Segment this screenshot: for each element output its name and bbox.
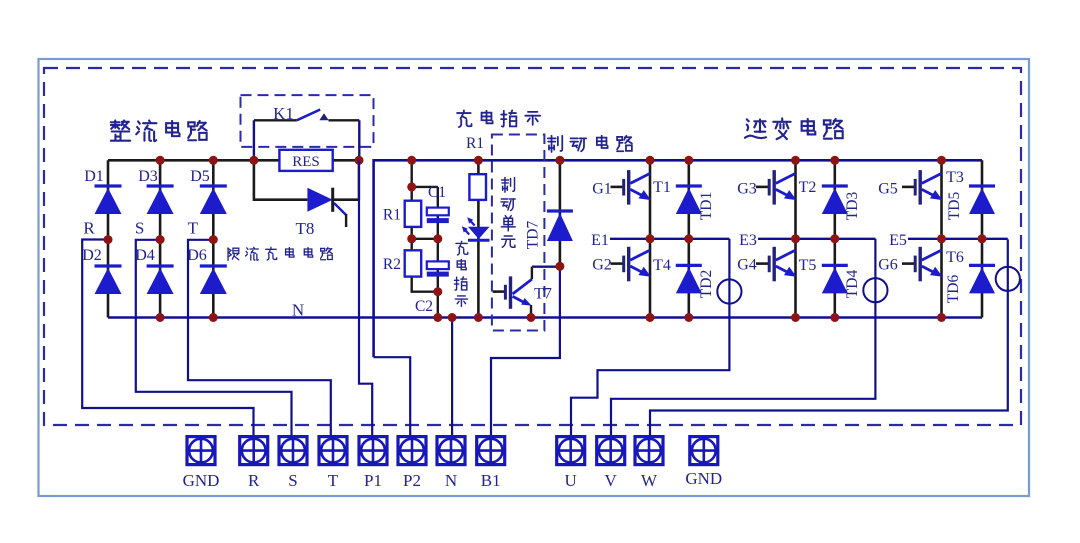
- terminal P1: [359, 437, 387, 465]
- diode D2: [95, 266, 122, 294]
- braking unit dashed box: [492, 135, 545, 331]
- junction dots snubber: [407, 156, 416, 165]
- svg-text:C2: C2: [415, 298, 433, 315]
- wire: output E5 to terminal: [650, 239, 1008, 437]
- svg-text:G4: G4: [737, 257, 757, 274]
- svg-text:TD3: TD3: [844, 192, 861, 221]
- capacitor C2: [427, 261, 449, 276]
- svg-text:G5: G5: [878, 181, 898, 198]
- svg-text:GND: GND: [685, 469, 722, 488]
- terminal GND: [187, 437, 215, 465]
- svg-text:R2: R2: [383, 256, 401, 273]
- terminal W: [635, 437, 663, 465]
- current sensor leg 3: [996, 267, 1020, 291]
- svg-text:P2: P2: [403, 471, 421, 490]
- wire: E3 row: [758, 238, 875, 240]
- transistor T1: [611, 170, 652, 205]
- wire: B1 routing: [491, 266, 560, 437]
- terminal S: [279, 437, 307, 465]
- current sensor leg 1: [717, 279, 741, 303]
- svg-text:D1: D1: [84, 168, 104, 185]
- svg-text:B1: B1: [481, 471, 501, 490]
- wire: to P1 terminal: [359, 160, 372, 437]
- svg-text:TD2: TD2: [698, 270, 715, 298]
- wire: inverter leg 2 diode vertical: [833, 160, 836, 317]
- svg-text:D6: D6: [187, 247, 207, 264]
- terminal P2: [398, 437, 426, 465]
- wire: inverter leg 3 IGBT vertical: [940, 160, 943, 317]
- transistor T6: [902, 247, 943, 281]
- wire: E1 row: [610, 238, 729, 240]
- wire: to P2 terminal: [374, 357, 411, 437]
- diode D4: [147, 266, 174, 294]
- wire: inverter leg 1 IGBT vertical: [649, 160, 652, 317]
- title: zhengliu dianlu: [111, 120, 130, 140]
- svg-text:T8: T8: [296, 219, 315, 238]
- svg-text:T1: T1: [653, 179, 671, 196]
- svg-text:P1: P1: [364, 471, 382, 490]
- terminal U: [557, 437, 585, 465]
- diode D1: [95, 186, 122, 214]
- diode TD4: [822, 265, 848, 293]
- svg-text:D5: D5: [190, 168, 210, 185]
- svg-text:D3: D3: [138, 168, 158, 185]
- svg-text:T4: T4: [653, 257, 671, 274]
- wire: rectifier leg R vertical: [107, 160, 110, 317]
- svg-text:V: V: [605, 471, 618, 490]
- svg-text:E5: E5: [889, 232, 907, 249]
- diode D5: [200, 186, 227, 214]
- terminal T: [319, 437, 347, 465]
- wire: rectifier leg T vertical: [212, 160, 215, 317]
- label: chongdian zhishi vertical: [456, 241, 468, 255]
- svg-text:G3: G3: [737, 181, 757, 198]
- svg-text:G1: G1: [592, 181, 612, 198]
- junction dots leg 3: [937, 156, 946, 165]
- wire: output E3 to terminal: [611, 239, 875, 437]
- wire: LED branch vertical: [477, 160, 480, 317]
- diode TD3: [822, 186, 848, 214]
- transistor T3: [902, 170, 943, 205]
- wire: inverter leg 1 diode vertical: [687, 160, 690, 317]
- relay contact K1: [254, 110, 359, 161]
- svg-text:W: W: [641, 471, 658, 490]
- diode TD6: [969, 265, 995, 293]
- wire: R input to terminal: [82, 240, 253, 438]
- wire: N bus bottom: [108, 316, 982, 319]
- svg-text:G6: G6: [878, 257, 898, 274]
- svg-text:TD4: TD4: [844, 270, 861, 299]
- diode TD7: [547, 211, 573, 241]
- diode D3: [147, 186, 174, 214]
- terminal V: [597, 437, 625, 465]
- svg-text:S: S: [135, 219, 144, 238]
- wire: TD7 vertical: [559, 160, 562, 266]
- svg-text:R1: R1: [466, 135, 484, 152]
- svg-text:R1: R1: [383, 207, 401, 224]
- svg-text:D4: D4: [135, 247, 155, 264]
- svg-text:E3: E3: [739, 232, 757, 249]
- title: chongdian zhishi: [457, 110, 471, 127]
- title: nibian dianlu: [745, 119, 766, 138]
- wire: top DC bus right segment: [374, 160, 982, 357]
- wire: top DC bus left segment: [108, 159, 359, 162]
- svg-text:T5: T5: [799, 257, 817, 274]
- junction dots leg 2: [791, 156, 800, 165]
- svg-text:C1: C1: [428, 184, 446, 201]
- svg-text:T2: T2: [799, 179, 817, 196]
- svg-text:G2: G2: [592, 257, 612, 274]
- resistor R1: [405, 201, 422, 227]
- svg-text:RES: RES: [292, 154, 320, 170]
- svg-text:E1: E1: [591, 232, 609, 249]
- svg-text:GND: GND: [183, 471, 220, 490]
- svg-text:T7: T7: [534, 286, 552, 303]
- diode D6: [200, 266, 227, 294]
- current sensor leg 2: [863, 278, 887, 302]
- label: zhidong danyuan vertical: [502, 178, 515, 193]
- resistor R1 (charge): [469, 174, 486, 200]
- diode TD5: [969, 186, 995, 214]
- capacitor C1: [427, 208, 449, 224]
- svg-text:T3: T3: [946, 169, 964, 186]
- inner dashed border: [44, 68, 1021, 425]
- LED charge indicator: [462, 217, 490, 240]
- svg-text:TD7: TD7: [525, 221, 542, 250]
- svg-text:K1: K1: [273, 104, 294, 123]
- svg-text:T6: T6: [946, 249, 964, 266]
- wire: output E1 to terminal: [571, 239, 729, 437]
- label: xianliu chongdian dianlu: [228, 248, 239, 260]
- wire: N bus to N terminal: [451, 318, 453, 438]
- wire: S input to terminal: [136, 240, 292, 437]
- wire: inverter leg 2 IGBT vertical: [794, 160, 797, 317]
- wire: inverter leg 3 diode vertical: [981, 160, 984, 317]
- transistor T5: [756, 247, 797, 281]
- svg-text:R: R: [248, 471, 260, 490]
- transistor T4: [611, 247, 652, 281]
- junction dots rectifier: [156, 156, 165, 165]
- svg-text:N: N: [445, 471, 457, 490]
- terminal N: [437, 437, 465, 465]
- wire: T input to terminal: [188, 240, 331, 437]
- junction dot LED top: [474, 156, 483, 165]
- resistor RES: [279, 150, 332, 171]
- svg-text:R: R: [83, 219, 95, 238]
- transistor T2: [756, 170, 797, 205]
- svg-text:S: S: [288, 471, 297, 490]
- svg-text:U: U: [565, 471, 577, 490]
- svg-text:D2: D2: [82, 247, 102, 264]
- diode TD1: [676, 186, 702, 214]
- svg-text:TD1: TD1: [698, 192, 715, 220]
- junction dots leg 1: [646, 156, 655, 165]
- wire: E5 row: [908, 238, 1008, 240]
- svg-text:TD5: TD5: [946, 192, 963, 221]
- svg-text:T: T: [328, 471, 339, 490]
- transistor T7: [493, 267, 560, 319]
- resistor R2: [405, 250, 422, 276]
- terminal B1: [477, 437, 505, 465]
- title: zhidong dianlu: [548, 136, 562, 152]
- relay box K1 dashed: [241, 95, 374, 147]
- svg-text:N: N: [292, 301, 304, 320]
- svg-text:T: T: [188, 219, 199, 238]
- junction dots K1: [249, 156, 258, 165]
- diode TD2: [676, 265, 702, 293]
- terminal R: [240, 437, 268, 465]
- wire: rectifier leg S vertical: [159, 160, 162, 317]
- svg-text:TD6: TD6: [945, 275, 962, 304]
- thyristor T8: [254, 160, 359, 227]
- outer frame: [39, 59, 1030, 496]
- wire: snubber chains: [412, 160, 438, 317]
- terminal GND: [690, 437, 718, 465]
